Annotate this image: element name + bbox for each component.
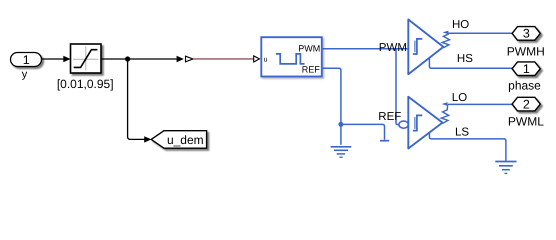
- wire LO: [448, 103, 513, 105]
- step glyph: [413, 39, 422, 54]
- svg-text:phase: phase: [508, 79, 541, 93]
- svg-text:HO: HO: [452, 19, 469, 31]
- goto tag u_dem: [151, 131, 206, 149]
- wire REF output down to ground: [322, 68, 341, 145]
- inverter bubble: [399, 121, 408, 128]
- ground G2: [495, 162, 516, 174]
- zigzag resistor to LO: [441, 105, 448, 124]
- input port In1 "1": [11, 53, 42, 67]
- svg-text:REF: REF: [302, 65, 321, 75]
- svg-text:REF: REF: [378, 111, 401, 123]
- svg-text:LO: LO: [452, 92, 467, 104]
- gate driver U2 (lower): [408, 97, 448, 149]
- svg-text:3: 3: [523, 27, 530, 41]
- wire saturation to open-arrow: [102, 56, 184, 62]
- svg-text:u: u: [264, 56, 268, 63]
- svg-text:1: 1: [523, 62, 530, 76]
- svg-text:2: 2: [523, 97, 530, 111]
- svg-text:LS: LS: [455, 127, 469, 139]
- wire HS: [429, 58, 512, 68]
- wire LS to ground: [429, 133, 506, 161]
- wire branch down to inverter bubble: [396, 49, 399, 125]
- svg-text:PWMH: PWMH: [507, 44, 545, 58]
- svg-text:u_dem: u_dem: [167, 133, 204, 147]
- signal line (red): [194, 58, 254, 60]
- svg-text:HS: HS: [457, 53, 473, 65]
- wire HO: [448, 32, 512, 34]
- open arrow at PWM block input: [254, 56, 260, 62]
- svg-text:[0.01,0.95]: [0.01,0.95]: [57, 77, 114, 91]
- output port 2: [512, 97, 540, 111]
- junction dot: [125, 56, 130, 61]
- gate driver U1 (upper): [408, 20, 449, 75]
- svg-text:1: 1: [23, 53, 30, 67]
- svg-text:PWML: PWML: [508, 114, 544, 128]
- ground G1: [331, 147, 352, 157]
- wire In1 to saturation: [42, 56, 71, 62]
- output port 3: [512, 27, 540, 41]
- open arrow glyph: [186, 56, 194, 62]
- wire REF branch to terminator bar: [341, 124, 385, 139]
- saturation block: [71, 44, 102, 73]
- terminator bar: [380, 140, 389, 142]
- output port 1: [512, 62, 540, 76]
- PWM generator block: [261, 37, 322, 76]
- svg-text:PWM: PWM: [298, 43, 320, 53]
- svg-text:PWM: PWM: [379, 42, 407, 54]
- zigzag resistor to HO: [442, 33, 449, 48]
- PWM waveform icon: [276, 54, 305, 64]
- step glyph: [413, 115, 422, 130]
- wire branch down to u_dem: [128, 59, 152, 143]
- junction dot REF net: [338, 122, 343, 127]
- wire PWM output to upper driver: [322, 48, 408, 50]
- svg-text:y: y: [22, 68, 28, 80]
